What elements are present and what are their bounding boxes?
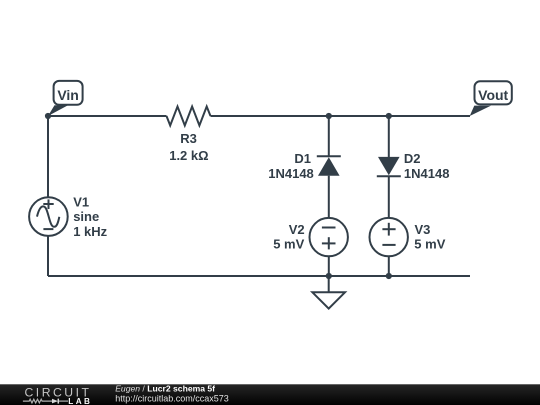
wire D2 to V3 bbox=[388, 176, 390, 218]
junction node V2 bottom bbox=[326, 273, 332, 279]
svg-text:5 mV: 5 mV bbox=[414, 237, 445, 252]
ground bbox=[312, 276, 345, 309]
svg-text:D2: D2 bbox=[404, 151, 421, 166]
junction node D2 top bbox=[386, 113, 392, 119]
svg-text:Eugen / Lucr2 schema 5f: Eugen / Lucr2 schema 5f bbox=[115, 384, 215, 394]
diode D1 bbox=[268, 151, 341, 181]
voltage source V3 bbox=[370, 218, 446, 256]
svg-text:1.2 kΩ: 1.2 kΩ bbox=[169, 148, 208, 163]
svg-text:R3: R3 bbox=[180, 131, 197, 146]
voltage source V1 bbox=[29, 195, 108, 239]
svg-text:V1: V1 bbox=[73, 195, 89, 210]
junction node V3 bottom bbox=[386, 273, 392, 279]
node label Vout bbox=[470, 81, 512, 116]
svg-text:1N4148: 1N4148 bbox=[268, 166, 314, 181]
diode D2 bbox=[377, 151, 450, 181]
wire D1 branch from top rail bbox=[328, 116, 330, 157]
CircuitLab logo resistor zigzag bbox=[23, 399, 52, 403]
svg-text:sine: sine bbox=[73, 209, 99, 224]
wire V1 to bottom rail bbox=[47, 236, 49, 276]
svg-text:1 kHz: 1 kHz bbox=[73, 224, 107, 239]
svg-text:5 mV: 5 mV bbox=[273, 237, 304, 252]
resistor R3 bbox=[167, 107, 211, 164]
wire V3 to bottom rail bbox=[388, 256, 390, 276]
svg-text:LAB: LAB bbox=[68, 397, 92, 405]
svg-text:1N4148: 1N4148 bbox=[404, 166, 450, 181]
wire left vertical (Vin node to V1) bbox=[47, 116, 49, 198]
wire D2 branch from top rail bbox=[388, 116, 390, 157]
wire top rail right (R3 to Vout) bbox=[211, 115, 471, 117]
wire top rail left (Vin node to R3) bbox=[48, 115, 167, 117]
wire bottom rail bbox=[48, 275, 470, 277]
CircuitLab logo diode glyph bbox=[52, 399, 68, 404]
svg-text:Vout: Vout bbox=[478, 87, 508, 103]
junction node D1 top bbox=[326, 113, 332, 119]
junction node at Vin bbox=[45, 113, 51, 119]
svg-text:http://circuitlab.com/ccax573: http://circuitlab.com/ccax573 bbox=[115, 394, 229, 404]
svg-text:V3: V3 bbox=[415, 222, 431, 237]
node label Vin bbox=[48, 81, 83, 116]
wire V2 to bottom rail bbox=[328, 256, 330, 276]
svg-text:V2: V2 bbox=[289, 222, 305, 237]
footer bar bbox=[0, 384, 540, 405]
voltage source V2 bbox=[273, 218, 348, 256]
svg-text:D1: D1 bbox=[294, 151, 311, 166]
svg-text:Vin: Vin bbox=[57, 87, 79, 103]
wire D1 to V2 bbox=[328, 176, 330, 218]
